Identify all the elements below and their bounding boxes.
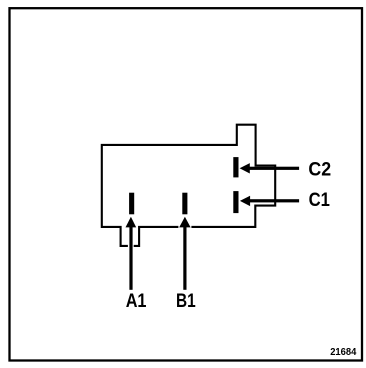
terminal C2 (233, 157, 238, 177)
svg-text:B1: B1 (176, 290, 196, 312)
terminal B1 (182, 193, 187, 215)
arrow A1 (126, 217, 137, 290)
wire gap halo at A1 shaft crossing (128, 244, 134, 248)
arrow C1 (240, 196, 299, 206)
arrow C2 (240, 163, 300, 173)
svg-text:C2: C2 (308, 159, 331, 181)
wire gap halo at B1 arrowhead crossing (178, 225, 191, 228)
terminal A1 (129, 193, 134, 215)
svg-text:C1: C1 (309, 189, 330, 211)
svg-text:A1: A1 (126, 290, 147, 312)
svg-text:21684: 21684 (330, 346, 356, 358)
connector outline (102, 125, 275, 246)
arrow B1 (179, 217, 190, 290)
terminal C1 (233, 191, 238, 213)
